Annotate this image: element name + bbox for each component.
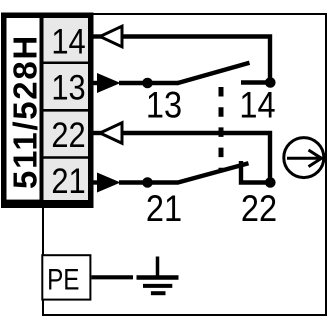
svg-text:13: 13 — [146, 85, 182, 126]
input arrow terminal 21 (filled) — [97, 173, 121, 193]
wire stub terminal 13 — [91, 81, 99, 85]
wire 13 to pivot — [119, 81, 178, 85]
terminal PE box — [42, 255, 90, 299]
frame / enclosure border — [43, 14, 326, 315]
terminal cell divider 13/22 — [44, 109, 89, 112]
terminal column divider — [40, 16, 44, 204]
junction node 13 — [142, 78, 153, 89]
wire PE to earth — [92, 275, 134, 279]
svg-text:21: 21 — [51, 162, 85, 201]
fixed contact stub 14 — [241, 80, 270, 84]
contact blade 13-14 (NO, open) — [177, 63, 250, 83]
terminal cell divider 22/21 — [44, 156, 89, 159]
junction node 21 — [142, 177, 153, 188]
svg-text:14: 14 — [239, 85, 275, 126]
svg-text:22: 22 — [241, 188, 277, 229]
contact blade 21-22 (NC, closed) — [177, 163, 249, 182]
svg-text:511/528H: 511/528H — [7, 34, 44, 189]
svg-text:21: 21 — [146, 188, 182, 229]
terminal strip background — [44, 18, 89, 200]
junction node 14 — [265, 77, 276, 88]
wire stub terminal 14 — [91, 34, 103, 38]
output arrow terminal 14 (hollow) — [100, 26, 122, 47]
terminal block 511/528H outline — [4, 15, 91, 205]
wire 22 to contact (horizontal + vertical) — [122, 133, 270, 183]
wire 14 to contact (horizontal + vertical) — [122, 37, 270, 83]
wire stub terminal 21 — [91, 180, 99, 184]
svg-text:14: 14 — [51, 22, 85, 61]
mechanical link (dashed) — [219, 87, 224, 172]
svg-text:22: 22 — [51, 116, 85, 155]
wire stub terminal 22 — [91, 131, 103, 135]
svg-text:PE: PE — [47, 262, 79, 296]
fixed contact post and stub 22 — [241, 161, 270, 183]
input arrow terminal 13 (filled) — [97, 73, 121, 93]
wire 21 to pivot — [119, 180, 178, 184]
terminal cell divider 14/13 — [44, 61, 89, 64]
svg-text:13: 13 — [51, 68, 85, 107]
earth ground symbol — [137, 257, 179, 294]
junction node 22 — [265, 177, 276, 188]
actuation direction symbol (circled arrow) — [284, 138, 324, 178]
output arrow terminal 22 (hollow) — [100, 123, 122, 144]
